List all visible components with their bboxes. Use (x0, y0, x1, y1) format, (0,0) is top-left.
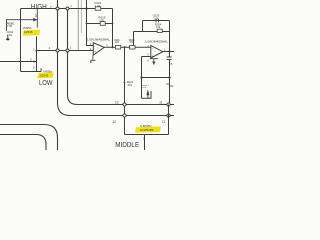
wire box2 left (142, 21, 144, 32)
svg-text:1/2NJM4558AL: 1/2NJM4558AL (87, 37, 111, 41)
junction feedback top (85, 7, 87, 9)
capacitor C019 (95, 7, 101, 10)
wire link VR (140, 76, 170, 78)
node 11 lower (162, 114, 170, 124)
resistor R020 (130, 46, 135, 50)
label C044 (7, 30, 14, 37)
junction output2 (168, 50, 170, 52)
label R023 (124, 80, 134, 87)
highlight VR05c (135, 126, 161, 132)
node a top (50, 5, 59, 10)
wire box2 right (169, 21, 171, 57)
wire HIGH rail (21, 8, 113, 10)
node 11 upper (159, 101, 170, 106)
svg-text:12: 12 (115, 101, 119, 105)
wire wiper drop (141, 57, 143, 99)
gray trace B (80, 0, 82, 33)
wire stage2 feedback drop (133, 32, 135, 46)
node 12 lower (112, 114, 126, 124)
gray trace A (77, 0, 79, 51)
node a mid (49, 46, 59, 52)
wire bus horizontal upper (77, 104, 174, 106)
label C019 (94, 1, 102, 8)
pot pin 3 stub (7, 9, 38, 32)
wire R019 branch (87, 23, 113, 25)
junction feedback mid (86, 23, 88, 25)
svg-text:226: 226 (99, 18, 104, 22)
trimmer loop VR (142, 91, 152, 98)
svg-text:0.91: 0.91 (7, 33, 13, 37)
svg-text:*: * (154, 50, 155, 54)
wire right column (169, 60, 171, 105)
wire feedback left vertical (87, 0, 94, 46)
pin 5 stub U2 (147, 58, 158, 65)
label R0977 (142, 85, 149, 89)
svg-text:1/2545: 1/2545 (39, 73, 48, 77)
wire box2 bottom (134, 31, 170, 33)
svg-text:1/2NJM4558AL: 1/2NJM4558AL (145, 40, 169, 44)
wire bus vertical right (68, 9, 78, 105)
svg-text:1uH: 1uH (115, 41, 120, 44)
resistor R024 (157, 29, 162, 32)
test point C044 (6, 35, 9, 40)
svg-text:*: * (97, 46, 98, 50)
label R020 (129, 39, 135, 44)
op-amp U2 (151, 45, 163, 58)
resistor R019 (100, 22, 105, 26)
svg-text:11: 11 (159, 101, 163, 105)
capacitor C025 (156, 19, 159, 23)
highlight VR05b (23, 30, 41, 36)
svg-text:+: + (152, 54, 154, 58)
junction tap (124, 46, 126, 48)
wire bus horizontal lower (70, 115, 174, 117)
svg-text:7.36: 7.36 (7, 24, 13, 28)
node b top (66, 4, 73, 10)
label C025 (153, 14, 160, 21)
capacitor C022 (167, 57, 172, 60)
svg-text:12: 12 (112, 120, 116, 124)
pin 5 stub U1 (90, 55, 96, 62)
svg-text:1/2545: 1/2545 (24, 30, 33, 34)
svg-text:LOW: LOW (39, 80, 53, 87)
node 12 upper (115, 101, 126, 106)
wire left edge curve outer (0, 125, 58, 151)
wire block bottom (21, 68, 42, 71)
trimmer arrow (146, 89, 149, 98)
wire right drop (168, 105, 170, 135)
svg-text:2: 2 (143, 137, 145, 141)
pot VR05b body (36, 37, 38, 72)
junction pin1 (36, 50, 38, 52)
label R026 (166, 83, 174, 88)
svg-text:1/2545: 1/2545 (140, 128, 155, 132)
node b mid (66, 45, 72, 52)
wire left vertical (20, 9, 22, 72)
svg-text:HIGH: HIGH (31, 4, 47, 11)
svg-text:MIDDLE: MIDDLE (115, 142, 139, 149)
wire input 2 (0, 58, 37, 63)
capacitor C021 (115, 46, 120, 50)
svg-text:1.0k: 1.0k (153, 16, 159, 20)
wire bus vertical left (58, 0, 71, 116)
label R019 (98, 15, 106, 22)
wire middle tap (143, 135, 145, 151)
junction feedback output (111, 46, 113, 48)
svg-text:3: 3 (35, 14, 37, 18)
label C021 (114, 39, 120, 44)
wire feedback right vertical (112, 9, 114, 48)
svg-text:11: 11 (162, 120, 166, 124)
svg-text:47k: 47k (156, 25, 161, 29)
wire bottom link (125, 134, 169, 136)
highlight VR05a (37, 73, 54, 79)
wire opamp1 plus rail (37, 50, 94, 52)
label R024 (155, 22, 162, 29)
label R0961 (7, 21, 15, 28)
wire left edge curve inner (0, 135, 46, 151)
op-amp U1 (93, 43, 104, 55)
wire center drop (124, 47, 126, 134)
junction R019 right (112, 23, 114, 25)
wire box2 top (143, 20, 170, 22)
svg-text:331: 331 (128, 83, 133, 87)
wire U2 output (163, 51, 174, 53)
svg-text:+: + (94, 50, 96, 54)
svg-text:1.0k: 1.0k (95, 4, 101, 8)
wire plus input U2 (142, 56, 152, 58)
wire U1 output (104, 46, 151, 48)
